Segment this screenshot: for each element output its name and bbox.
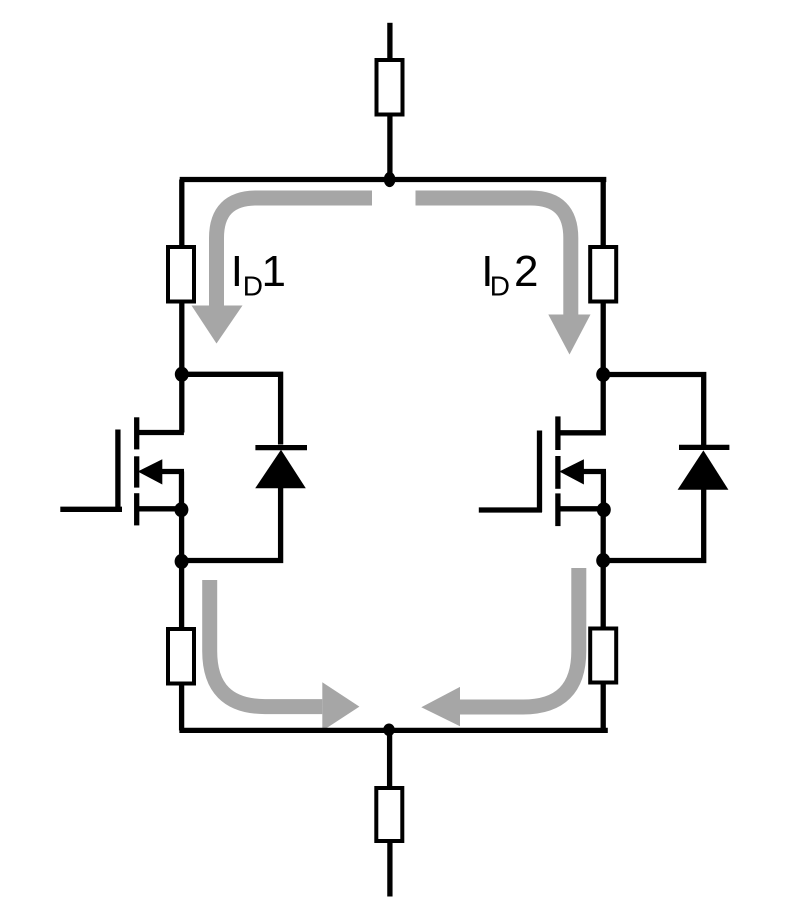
resistor left bottom: [168, 629, 194, 684]
arrowhead of I_D1: [192, 306, 243, 344]
Q2 gate lead: [479, 507, 542, 512]
wire: left bottom resistor to bottom rail: [179, 684, 184, 731]
wire: bottom feed out: [387, 841, 392, 897]
Q2 channel dash top: [555, 416, 560, 450]
transistor Q1 (left MOSFET): [60, 417, 184, 525]
wire: left bottom branch: [179, 561, 184, 629]
wire: right bottom resistor to bottom rail: [601, 683, 606, 731]
Q1 channel dash bottom: [134, 493, 139, 525]
current arrow bottom-left (gray): [210, 580, 323, 707]
wire: bottom rail: [179, 728, 607, 733]
wire: top feed into R top: [387, 23, 392, 60]
Q1 drain stub: [137, 430, 184, 435]
Q2 channel dash bottom: [555, 493, 560, 526]
arrowhead of bottom-left arrow: [322, 682, 359, 731]
Q1 body arrow line: [150, 469, 184, 474]
diode D2 cathode bar: [679, 445, 729, 450]
wire: R top to top node: [387, 115, 392, 180]
Q1 source drop from body: [179, 472, 184, 511]
wire: left resistor to drain node: [179, 302, 184, 375]
resistor R top (center): [377, 60, 403, 115]
wire: bottom junction to R bottom: [387, 730, 392, 788]
node: Q1 source: [174, 502, 188, 517]
resistor R bottom (center): [376, 788, 402, 841]
wire: right drain down to drain stub: [601, 375, 606, 433]
node: Q2 source: [597, 502, 611, 517]
Q1 channel dash middle: [134, 456, 139, 487]
Q2 gate plate: [537, 431, 542, 513]
node: right bottom junction: [596, 553, 610, 568]
transistor Q2 (right MOSFET): [479, 416, 606, 526]
svg-text:ID1: ID1: [231, 247, 286, 302]
Q1 channel dash top: [134, 417, 139, 449]
resistor left top: [168, 247, 194, 302]
wire: right bottom branch: [601, 561, 606, 629]
wire: right branch upper: [601, 180, 606, 248]
diode D1 cathode bar: [255, 445, 307, 450]
node: left drain: [175, 367, 189, 382]
Q1 body arrowhead: [138, 459, 163, 484]
node: top junction: [384, 172, 396, 187]
svg-text:ID2: ID2: [481, 247, 538, 302]
node: bottom junction: [383, 724, 395, 737]
diode D1 triangle: [255, 450, 306, 488]
Q2 source stub: [558, 506, 606, 511]
Q2 channel dash middle: [555, 456, 560, 489]
current arrow I_D2 (gray, top right): [416, 198, 571, 315]
Q2 drain stub: [558, 430, 606, 435]
wire: Q2 source to bottom node: [601, 510, 606, 561]
arrowhead of bottom-right arrow: [421, 687, 460, 726]
Q1 source stub: [137, 506, 184, 511]
arrowhead of I_D2: [548, 315, 590, 355]
Q1 gate plate: [115, 430, 120, 512]
wire: right resistor to drain node: [601, 302, 606, 375]
Q2 source drop from body: [601, 472, 606, 511]
resistor right bottom: [590, 629, 616, 683]
current arrow bottom-right (gray): [460, 568, 579, 707]
Q2 body arrowhead: [559, 459, 584, 484]
wire: left drain down to drain stub: [179, 374, 184, 432]
current arrow I_D1 (gray, top left): [217, 198, 373, 306]
Q2 body arrow line: [571, 469, 606, 474]
wire: Q1 source to bottom node: [179, 510, 184, 562]
node: right drain: [596, 367, 610, 382]
diode D1 bottom wire: [182, 485, 281, 561]
resistor right top: [590, 247, 616, 302]
diode D1 branch: top wire: [182, 374, 281, 444]
wire: left branch upper: [179, 180, 184, 248]
wire: top rail: [180, 177, 607, 182]
diode D2 bottom wire: [603, 488, 704, 561]
node: left bottom junction: [175, 554, 189, 569]
diode D2 triangle: [678, 450, 729, 489]
Q1 gate lead: [60, 507, 122, 512]
diode D2 branch: top wire: [603, 375, 704, 446]
